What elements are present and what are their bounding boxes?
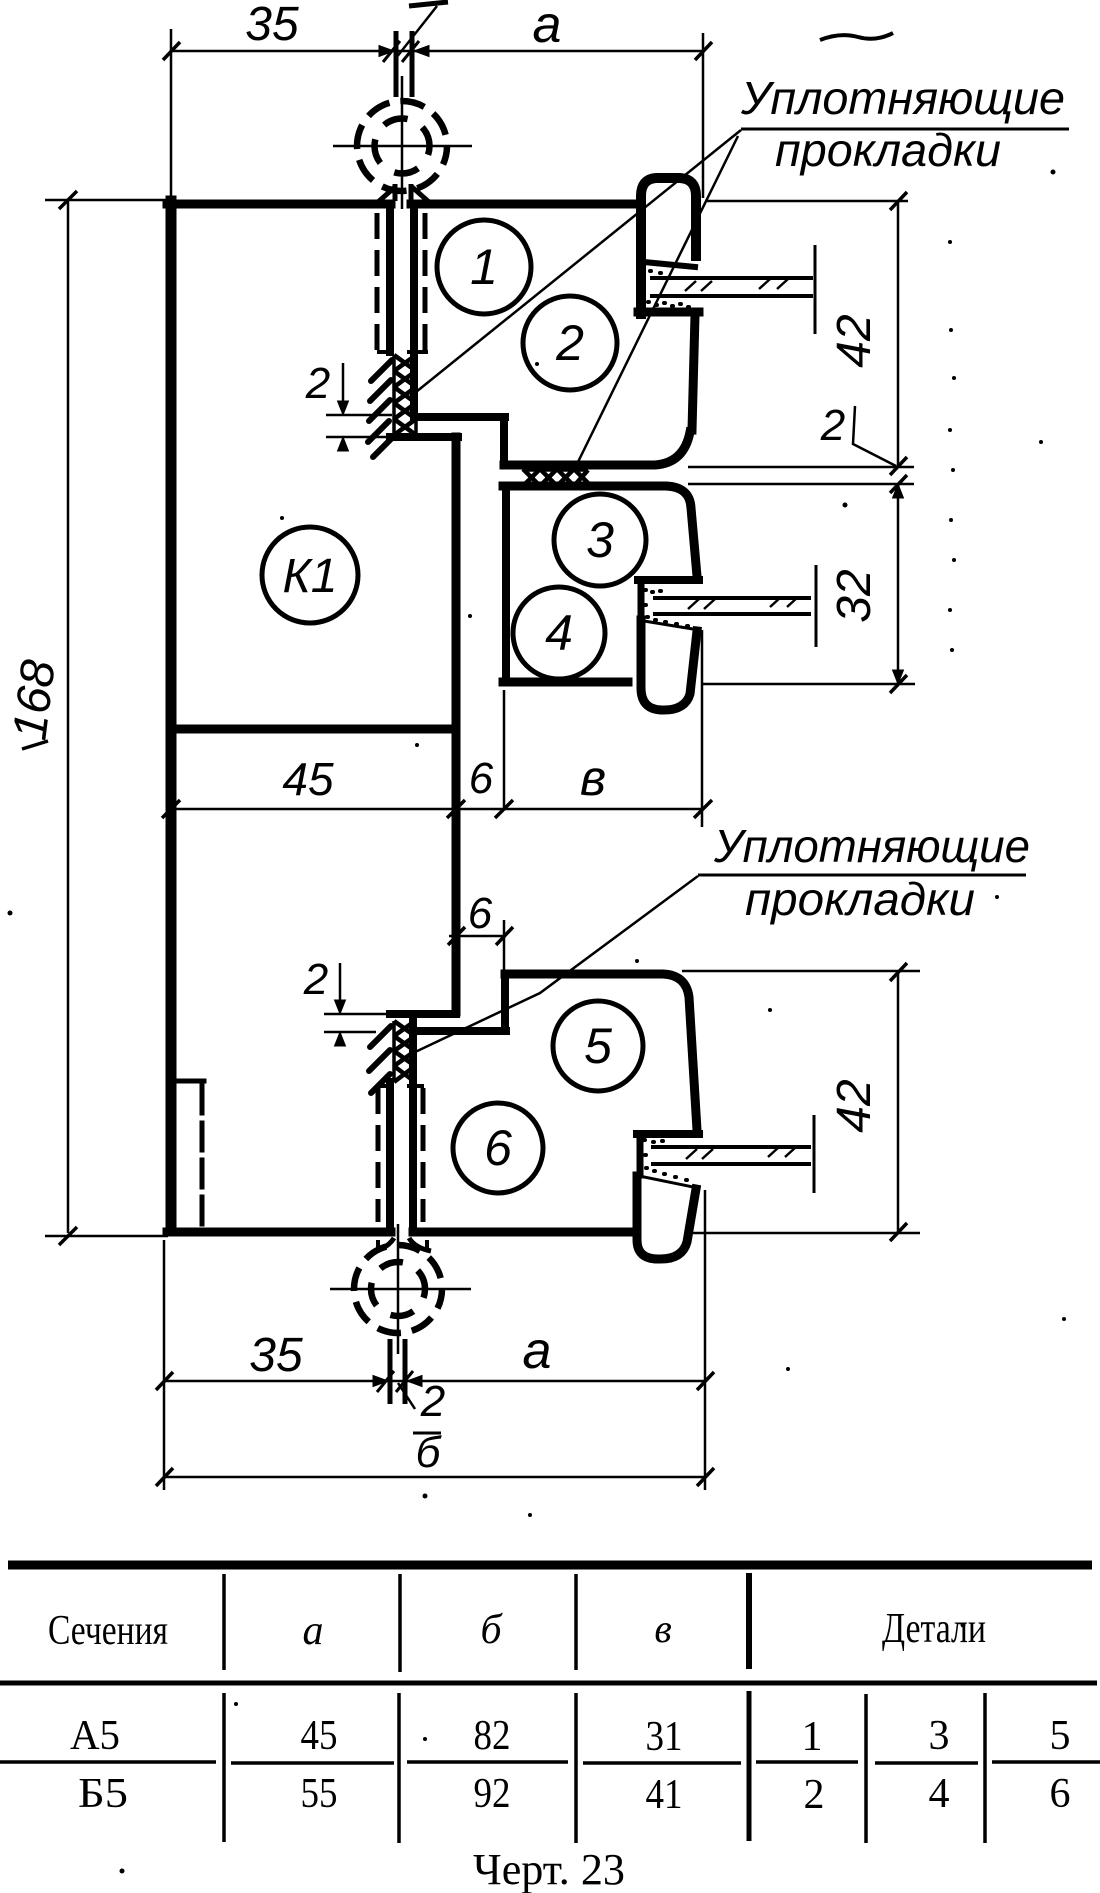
glass pane of sash 3-4: [653, 565, 816, 647]
svg-text:a: a: [533, 0, 562, 54]
leader line to bottom slot gasket: [413, 876, 698, 1053]
GASKETS: [368, 355, 588, 1093]
dim 6 bottom: ticks: [448, 927, 513, 945]
svg-text:прокладки: прокладки: [775, 124, 1001, 176]
dim 2 right: arrows and tick: [893, 484, 904, 498]
sash 3-4 top edge and right corner: [503, 486, 697, 576]
sash 1-2 slot right wall: [410, 206, 418, 417]
dim 42 top-right: end ticks: [890, 192, 907, 475]
dim 32 right: end tick: [890, 675, 907, 693]
svg-text:6: 6: [484, 1120, 512, 1176]
svg-text:К1: К1: [283, 550, 338, 603]
svg-text:6: 6: [468, 889, 493, 938]
table header texts: [48, 1606, 986, 1654]
svg-text:2: 2: [420, 1377, 445, 1426]
svg-text:2: 2: [305, 359, 330, 408]
PROFILES: [167, 178, 699, 1259]
bottom slot mouth flares: [374, 1238, 431, 1251]
dim 2 top-left: arrows: [338, 401, 349, 415]
stray mark left: [22, 741, 48, 749]
top hinge pin lines above: [396, 31, 412, 97]
table data row A5: [70, 1713, 1071, 1760]
frame K1 slot left wall bottom: [386, 1082, 394, 1230]
dim 2 top-left: extension lines: [326, 415, 392, 437]
dim 168: extension lines: [45, 200, 168, 1236]
hatch ticks left of bottom gasket: [369, 1026, 391, 1093]
dim b bottom: end ticks: [156, 1468, 714, 1486]
svg-text:3: 3: [586, 512, 614, 568]
svg-text:б: б: [416, 1428, 443, 1477]
svg-text:6: 6: [469, 754, 494, 803]
label b bottom overbar: [413, 1432, 441, 1435]
dim 32 right: dimension line: [897, 484, 900, 684]
dim 2 bottom-left: leader line: [339, 963, 342, 1011]
svg-text:5: 5: [1050, 1713, 1071, 1759]
top hinge vertical centreline: [401, 76, 404, 209]
dim 35/a bottom: extension lines: [164, 1190, 705, 1490]
svg-text:Сечения: Сечения: [48, 1608, 168, 1654]
svg-text:42: 42: [828, 314, 881, 367]
dim 2 top-left: leader line: [342, 363, 345, 412]
svg-text:45: 45: [282, 753, 334, 805]
sash 5-6 glazing rebate top: [637, 1130, 699, 1138]
svg-text:4: 4: [929, 1771, 950, 1817]
svg-text:3: 3: [929, 1713, 950, 1759]
svg-text:1: 1: [470, 239, 498, 295]
GLASS: [644, 245, 816, 1193]
svg-text:Уплотняющие: Уплотняющие: [713, 820, 1030, 872]
dim 2 bottom-left: arrows: [335, 1000, 346, 1014]
top hinge pin lines below / slot mouth flares: [395, 184, 411, 201]
svg-text:168: 168: [3, 657, 65, 743]
dim b bottom: dimension line: [164, 1476, 705, 1479]
svg-text:35: 35: [249, 1329, 303, 1382]
sash 3-4 rebate bottom slant: [644, 621, 699, 630]
dim 6 bottom: dimension line: [449, 935, 506, 938]
svg-text:Уплотняющие: Уплотняющие: [740, 72, 1065, 124]
sash 5-6 bottom edge: [413, 1228, 634, 1237]
sash 1-2 body right edge: [692, 315, 695, 430]
sash 5-6 notch bottom surface: [413, 1027, 506, 1035]
svg-text:82: 82: [474, 1713, 511, 1759]
dim 35/a top: dimension line: [171, 50, 703, 53]
svg-text:5: 5: [584, 1018, 612, 1074]
top hinge outer dashed circle: [357, 101, 447, 191]
table top rule: [8, 1561, 1092, 1570]
svg-text:55: 55: [301, 1771, 338, 1817]
sash 5-6 top edge and right corner: [505, 974, 697, 1130]
bottom hinge outer dashed circle: [354, 1245, 442, 1333]
top hinge inner dashed circle: [375, 119, 430, 174]
bottom hinge pin lines below: [390, 1339, 405, 1404]
svg-text:a: a: [523, 1322, 552, 1380]
sash 3-4 bottom edge: [503, 678, 628, 687]
bottom hinge horizontal centreline: [330, 1288, 471, 1291]
dim 42 bottom-right: extension lines: [682, 971, 920, 1233]
detail circle 2: [523, 296, 617, 390]
svg-text:1: 1: [802, 1714, 823, 1760]
frame K1 top edge: [167, 200, 391, 209]
sash 1-2 glazing cap outline: [641, 178, 696, 314]
table row separator segments: [0, 1762, 1100, 1763]
svg-text:41: 41: [646, 1772, 683, 1818]
svg-text:4: 4: [545, 605, 573, 661]
dim 35/a top: extension lines: [171, 29, 703, 198]
dim 42 top-right: dimension line: [897, 201, 900, 466]
dim 45/6/v middle: dimension line: [171, 808, 703, 811]
dim 42 bottom-right: dimension line: [897, 972, 900, 1232]
dim 2 bottom-left: extension lines: [324, 1014, 388, 1032]
frame K1 left edge: [166, 201, 177, 1231]
table body vertical separators: [224, 1693, 576, 1843]
dim 32 right: extension line: [701, 683, 915, 686]
sash 5-6 notch vertical: [501, 974, 509, 1031]
detail circle K1: [262, 527, 358, 623]
detail circle 5: [553, 1001, 643, 1091]
putty dots sash 5-6: [644, 1140, 687, 1180]
sash 1-2 notch vertical: [500, 417, 508, 463]
svg-text:6: 6: [1050, 1771, 1071, 1817]
dim 6 bottom: extension line: [503, 920, 506, 971]
sealing gasket bottom slot cross-hatch: [394, 1021, 415, 1082]
frame K1 inner web line: [172, 725, 456, 734]
dim 168: end ticks: [59, 191, 77, 1245]
svg-text:2: 2: [303, 955, 328, 1004]
top hinge horizontal centreline: [333, 145, 472, 148]
TABLE: [0, 1565, 1100, 1893]
frame hidden hinge plate dashed line: [200, 1086, 205, 1228]
svg-text:32: 32: [828, 569, 881, 622]
frame K1 bottom step surface: [390, 1010, 456, 1018]
top cut label b bar: [409, 2, 448, 6]
bottom slot outer dashed lines: [376, 1088, 381, 1222]
sash 3-4 rebate left wall: [638, 580, 645, 620]
svg-text:в: в: [654, 1606, 671, 1651]
svg-text:прокладки: прокладки: [745, 873, 975, 925]
table header underline rule: [0, 1681, 1097, 1686]
svg-text:в: в: [580, 750, 606, 806]
dim 42 top-right: extension lines: [688, 201, 914, 484]
sash 5-6 drip lobe: [637, 1176, 696, 1259]
svg-text:а: а: [303, 1608, 324, 1654]
leader line to top slot gasket: [416, 130, 741, 392]
top slot cup caps: [377, 350, 428, 354]
bottom hinge inner dashed circle: [371, 1262, 425, 1316]
dim 45/6/v middle: end and middle ticks: [162, 800, 712, 818]
svg-text:Детали: Детали: [882, 1606, 986, 1652]
svg-text:2: 2: [555, 315, 584, 371]
detail circle 3: [554, 494, 646, 586]
svg-text:А5: А5: [70, 1713, 120, 1759]
svg-text:2: 2: [820, 401, 845, 450]
sash 1-2 cap bottom wall: [638, 308, 699, 317]
sash 3-4 glazing rebate top: [638, 576, 699, 584]
svg-text:31: 31: [646, 1714, 683, 1760]
sealing gasket between sashes cross-hatch: [523, 469, 588, 486]
glass pane of sash 5-6: [651, 1115, 814, 1193]
dim 35/a bottom: converging arrows at pin: [373, 1376, 422, 1387]
dim 45/6/v middle: extension lines: [504, 630, 702, 827]
stray scan mark top right: [820, 33, 893, 40]
leader underline top label: [741, 128, 1069, 131]
table header vertical separators: [224, 1574, 576, 1672]
dim 2 right: leader: [853, 406, 896, 466]
dim 2 bottom: leader: [398, 1383, 415, 1409]
putty dots sash 3-4: [645, 590, 688, 626]
detail circle 1: [437, 220, 531, 314]
frame K1 slot left wall top: [386, 206, 394, 352]
top cut label b leader: [396, 6, 437, 58]
sash 5-6 rebate left wall: [637, 1134, 644, 1175]
dim 35/a bottom: dimension line: [164, 1380, 705, 1383]
leader line to inter-sash gasket: [577, 136, 738, 464]
svg-text:Черт. 23: Черт. 23: [473, 1845, 625, 1893]
bottom hinge vertical centreline: [397, 1224, 400, 1354]
svg-text:42: 42: [828, 1079, 881, 1132]
dim 35/a top: end ticks: [163, 42, 712, 60]
dim 42 bottom-right: end ticks: [890, 963, 907, 1241]
svg-text:92: 92: [474, 1771, 511, 1817]
frame K1 right edge: [452, 437, 461, 1012]
CIRCLES: [262, 220, 646, 1193]
frame K1 bottom edge: [167, 1228, 391, 1237]
HINGES: [330, 31, 472, 1404]
leader underline bottom label: [698, 874, 1026, 877]
sash 3-4 left edge: [502, 487, 510, 682]
sash 1-2 notch bottom surface: [414, 413, 505, 421]
svg-text:б: б: [480, 1607, 503, 1653]
svg-text:2: 2: [804, 1772, 825, 1818]
svg-text:45: 45: [301, 1713, 338, 1759]
putty dots sash 1-2: [648, 271, 689, 307]
hatch ticks left of top gasket: [368, 360, 392, 457]
glass pane of sash 1-2: [650, 245, 815, 334]
dim 168: dimension line: [67, 200, 70, 1233]
top slot outer dashed lines: [375, 213, 380, 350]
sash 1-2 top edge: [411, 200, 639, 209]
sash 1-2 putty top slant: [644, 262, 695, 267]
DIMS: [22, 2, 1069, 1490]
svg-text:35: 35: [245, 0, 299, 51]
sash 5-6 left edge: [409, 1016, 417, 1230]
frame hidden hinge plate solid line: [175, 1079, 204, 1084]
sash 5-6 rebate bottom slant: [644, 1177, 698, 1188]
svg-text:Б5: Б5: [78, 1771, 128, 1817]
sealing gasket top slot cross-hatch: [394, 355, 416, 435]
sash 1-2 bottom edge: [504, 432, 690, 465]
dim 35/a top: converging arrows at slot: [379, 46, 429, 57]
bottom slot cup caps: [378, 1084, 424, 1088]
dim 35/a bottom: end ticks: [156, 1372, 714, 1390]
sash 3-4 drip lobe: [641, 620, 697, 710]
frame K1 nab top surface: [390, 433, 458, 441]
table data row B5: [78, 1771, 1071, 1818]
detail circle 4: [513, 587, 605, 679]
detail circle 6: [453, 1103, 543, 1193]
